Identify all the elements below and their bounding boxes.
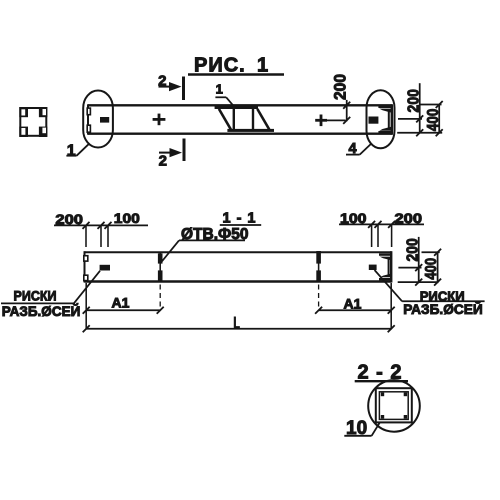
svg-text:200: 200 (55, 211, 83, 227)
svg-text:2: 2 (159, 152, 167, 169)
svg-text:200: 200 (405, 89, 422, 112)
svg-text:РАЗБ.ØСЕЙ: РАЗБ.ØСЕЙ (403, 300, 483, 317)
svg-text:РИС.: РИС. (194, 55, 246, 77)
svg-text:1: 1 (257, 55, 268, 77)
svg-text:L: L (233, 314, 240, 333)
svg-text:А1: А1 (344, 295, 362, 311)
svg-text:400: 400 (423, 258, 440, 280)
svg-text:А1: А1 (112, 294, 130, 310)
svg-text:РАЗБ.ØСЕЙ: РАЗБ.ØСЕЙ (2, 302, 81, 319)
svg-text:100: 100 (114, 210, 140, 226)
svg-text:200: 200 (405, 238, 422, 261)
svg-text:2: 2 (158, 73, 166, 90)
svg-text:1: 1 (216, 82, 223, 97)
svg-text:1 - 1: 1 - 1 (222, 210, 256, 226)
svg-text:200: 200 (395, 210, 423, 226)
svg-text:1: 1 (67, 143, 76, 160)
svg-text:100: 100 (340, 210, 367, 226)
svg-text:РИСКИ: РИСКИ (14, 288, 57, 304)
svg-text:200: 200 (331, 74, 350, 100)
svg-text:400: 400 (425, 109, 442, 132)
